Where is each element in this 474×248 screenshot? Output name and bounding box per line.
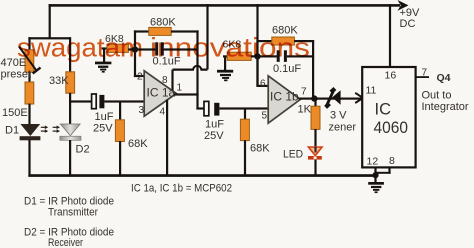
- wire 0.1uF C4 right stub: [287, 55, 314, 57]
- svg-text:zener: zener: [329, 122, 357, 134]
- wire pin16 drop: [389, 4, 391, 67]
- IC U2 4060 box: [362, 67, 415, 167]
- capacitor C3 1uF/25V negative plate: [214, 103, 219, 116]
- svg-text:D1: D1: [5, 125, 19, 137]
- wire feedback loop right vertical: [196, 30, 198, 95]
- svg-text:6: 6: [260, 79, 266, 90]
- svg-text:1K: 1K: [298, 104, 312, 116]
- svg-text:25V: 25V: [93, 123, 113, 135]
- wire pin2 stub: [134, 75, 145, 77]
- wire LED to rail: [314, 160, 316, 177]
- diode D1 IR transmitter: [20, 124, 41, 140]
- svg-text:3: 3: [139, 105, 145, 116]
- svg-text:680K: 680K: [150, 17, 176, 29]
- wire feedback2 right vertical: [312, 40, 314, 100]
- wire C3 to pin5: [219, 107, 268, 109]
- wire pot top: [28, 37, 30, 50]
- wire 0.1uF C2 left stub: [135, 48, 155, 50]
- photodiode D2 IR receiver: [60, 124, 81, 140]
- wire 680K R7 right stub: [294, 40, 314, 42]
- svg-text:8: 8: [389, 155, 395, 167]
- wire pin1 output: [174, 93, 198, 95]
- wire supply hop over feedback: [173, 66, 208, 70]
- wire 150E to D1: [28, 104, 30, 125]
- wire pin4 to rail: [166, 100, 168, 177]
- resistor 33K body: [66, 72, 75, 93]
- ground G1: [95, 49, 111, 73]
- wire 6K8 R2 right stub: [128, 48, 136, 50]
- capacitor C2 0.1uF plates: [155, 42, 164, 55]
- zener Z1 triangle: [332, 90, 340, 105]
- wire 1K R8 top: [314, 99, 316, 107]
- svg-text:2: 2: [137, 72, 143, 83]
- wire output to C3 stub: [196, 107, 204, 109]
- wire left bus: [28, 37, 71, 39]
- resistor R8 1K body: [311, 106, 320, 129]
- svg-text:Out to: Out to: [422, 90, 452, 102]
- svg-text:Receiver: Receiver: [48, 237, 83, 248]
- svg-text:150E: 150E: [2, 107, 28, 119]
- preset P1 470E body: [25, 50, 34, 72]
- wire feedback loop left vertical: [134, 30, 136, 77]
- preset P1 wiper arrow: [19, 47, 41, 74]
- svg-text:IC 1b: IC 1b: [270, 90, 299, 104]
- op-amp U1b triangle: [268, 76, 300, 123]
- svg-text:IC: IC: [375, 101, 392, 119]
- svg-text:5: 5: [262, 111, 268, 122]
- svg-text:1uF: 1uF: [95, 111, 114, 123]
- svg-text:D2: D2: [76, 144, 90, 156]
- svg-text:68K: 68K: [128, 138, 148, 150]
- svg-text:11: 11: [366, 85, 377, 97]
- svg-text:1uF: 1uF: [205, 119, 224, 131]
- zener Z1 3V bar: [326, 89, 335, 108]
- wire 0.1uF C4 left stub: [258, 55, 277, 57]
- wire 68K R3 to rail: [119, 141, 121, 177]
- capacitor C1 1uF/25V positive plate: [92, 94, 97, 109]
- resistor R7 680K body: [272, 37, 295, 45]
- wire 680K R4 left stub: [134, 30, 149, 32]
- wire 68K R3 top: [119, 101, 121, 120]
- svg-text:4060: 4060: [374, 119, 409, 137]
- capacitor C4 0.1uF plates: [277, 50, 287, 62]
- IR reception arrows into D2: [53, 127, 57, 131]
- capacitor C3 1uF/25V positive plate: [204, 101, 209, 115]
- wire pin7 stub right: [416, 76, 429, 78]
- capacitor C1 1uF/25V negative plate: [99, 95, 104, 108]
- wire 68K R6 to rail: [244, 140, 246, 176]
- svg-text:7: 7: [301, 87, 307, 98]
- svg-text:preset: preset: [1, 69, 32, 81]
- svg-text:16: 16: [385, 70, 397, 82]
- wire pin7 output to IC4060: [299, 98, 364, 100]
- wire output down to C3: [196, 93, 198, 109]
- arrowhead +9V supply: [398, 0, 409, 11]
- svg-text:swagataminnovations: swagataminnovations: [17, 33, 310, 63]
- op-amp U1a triangle: [144, 71, 176, 116]
- wire drop rail to IC1a supply: [206, 4, 208, 69]
- node ground junction: [372, 172, 378, 178]
- resistor 150E body: [25, 82, 34, 104]
- resistor R3 68K body: [115, 120, 124, 142]
- svg-text:7: 7: [422, 68, 428, 79]
- svg-text:IC 1a, IC 1b = MCP602: IC 1a, IC 1b = MCP602: [131, 183, 232, 195]
- svg-text:Transmitter: Transmitter: [48, 207, 98, 219]
- svg-text:3 V: 3 V: [330, 110, 347, 122]
- wire D1 to rail: [28, 140, 30, 177]
- wire 0.1uF C2 right stub: [164, 48, 199, 50]
- wire pin12 stub: [374, 167, 376, 176]
- wire 6K8 R2 left stub: [102, 47, 108, 49]
- svg-text:LED: LED: [283, 149, 303, 161]
- wire pin8 elbow: [374, 167, 390, 174]
- resistor R2 6K8 body: [107, 44, 128, 52]
- wire D2 to rail: [69, 140, 71, 177]
- svg-text:8: 8: [162, 75, 168, 86]
- wire 6K8 R5 right stub: [251, 55, 258, 57]
- node junction pin2 network: [132, 46, 138, 52]
- resistor R6 68K body: [240, 119, 249, 140]
- wire drop rail to IC1b junction: [256, 4, 258, 86]
- svg-text:0.1uF: 0.1uF: [273, 63, 301, 75]
- wire top +9V rail: [49, 4, 400, 7]
- wire node to 1uF C1: [69, 100, 92, 102]
- wire drop rail to left bus: [49, 4, 51, 39]
- wire through LED tip: [314, 147, 316, 153]
- wire 68K R6 top: [244, 108, 246, 120]
- svg-text:33K: 33K: [49, 75, 69, 87]
- svg-text:1: 1: [177, 83, 183, 94]
- LED D3: [308, 147, 322, 160]
- wire 6K8 R5 left stub: [223, 55, 228, 57]
- wire bottom rail: [28, 174, 376, 177]
- node junction pin6 network: [254, 53, 260, 59]
- wire 680K R7 left stub: [256, 40, 272, 42]
- wire 680K R4 right stub: [171, 30, 199, 32]
- svg-text:25V: 25V: [204, 130, 224, 142]
- wire 33K to D2: [69, 93, 71, 124]
- wire C1 to pin3: [104, 100, 145, 102]
- ground G3: [368, 175, 384, 193]
- svg-text:Integrator: Integrator: [422, 101, 469, 113]
- resistor R4 680K body: [149, 27, 171, 35]
- svg-text:Q4: Q4: [437, 72, 451, 84]
- svg-text:IC 1a: IC 1a: [147, 86, 176, 100]
- IR emission arrows from D1: [41, 127, 45, 131]
- svg-text:68K: 68K: [250, 143, 270, 155]
- wire 1K to LED: [314, 129, 316, 147]
- wire pot to 150E: [28, 72, 30, 83]
- svg-text:4: 4: [160, 107, 166, 118]
- resistor R5 6K8 body: [227, 52, 251, 60]
- node output junction: [311, 95, 317, 101]
- arrow into pin11: [355, 93, 363, 103]
- svg-text:DC: DC: [400, 18, 416, 30]
- wire 33K top: [69, 37, 71, 72]
- wire pin6 vertical: [256, 56, 258, 86]
- wire pin8 vertical: [171, 70, 173, 93]
- svg-text:12: 12: [367, 156, 379, 168]
- ground G2: [217, 56, 233, 81]
- wire pin6 stub: [256, 85, 268, 87]
